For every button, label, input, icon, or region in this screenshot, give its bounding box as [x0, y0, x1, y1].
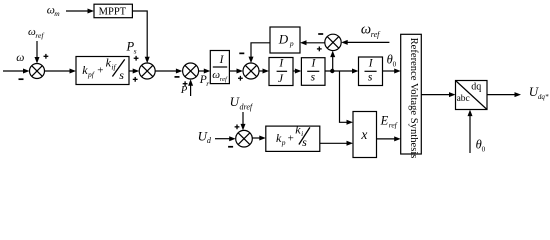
- wire D_p to S4: [249, 43, 271, 63]
- wire node up to summing junction S5: [330, 51, 335, 71]
- svg-text:J: J: [278, 73, 284, 85]
- sign minus at S4: [239, 52, 244, 54]
- wire omega_m to MPPT: [66, 9, 94, 14]
- svg-text:s: s: [302, 135, 307, 149]
- svg-text:D: D: [278, 32, 289, 47]
- sign minus at S5: [318, 33, 323, 35]
- label omega_ref right: [361, 21, 381, 39]
- wire second 1/s to Reference Voltage Synthesis: [383, 69, 401, 74]
- wire 1/J to 1/s: [293, 69, 301, 74]
- label theta_0 lower: [476, 137, 486, 153]
- wire 1/s to node and to second 1/s: [325, 69, 359, 74]
- svg-text:0: 0: [482, 145, 486, 153]
- sign plus at S3: [183, 81, 188, 86]
- sign minus at S3: [175, 76, 180, 78]
- wire S6 to PI block V: [252, 136, 265, 141]
- wire 1/omega_ref to summing junction S4: [229, 69, 243, 74]
- svg-text:r: r: [206, 79, 209, 88]
- block 1/s first: [301, 57, 325, 85]
- sign plus at S1: [44, 54, 49, 59]
- svg-text:ω: ω: [16, 52, 24, 64]
- wire MPPT to summing junction S2: [132, 11, 149, 63]
- wire S5 to D_p: [300, 40, 325, 45]
- svg-text:Reference Voltage Synthesis: Reference Voltage Synthesis: [408, 38, 419, 159]
- summing junction S2: [139, 63, 155, 79]
- wire theta_0 to dq abc transform: [468, 110, 473, 153]
- block MPPT: [94, 4, 132, 18]
- wire node down to multiplier x top input: [340, 71, 354, 125]
- block PI frequency kpf+kif/s: [76, 56, 129, 85]
- svg-text:p: p: [281, 138, 286, 147]
- label theta_0 upper: [387, 52, 397, 68]
- wire PI block F to summing junction S2: [129, 69, 139, 74]
- block 1/omega_ref: [210, 51, 229, 84]
- summing junction S6: [236, 130, 253, 147]
- svg-text:dq: dq: [471, 82, 481, 93]
- wire U_d to summing junction S6: [215, 136, 236, 141]
- label P_r: [199, 74, 210, 88]
- sign plus lower at S2: [133, 77, 138, 82]
- summing junction S5: [325, 34, 341, 50]
- svg-text:p: p: [289, 39, 294, 48]
- label omega_m: [47, 4, 61, 18]
- sign plus upper at S2: [134, 56, 139, 61]
- svg-text:abc: abc: [457, 94, 470, 104]
- block Reference Voltage Synthesis: [401, 34, 422, 158]
- block PI voltage kp+ki/s: [266, 123, 320, 152]
- sign minus at S6: [228, 146, 233, 148]
- block multiplier x: [353, 112, 377, 158]
- svg-text:+: +: [97, 64, 103, 76]
- summing junction S1: [30, 64, 45, 79]
- svg-text:m: m: [54, 9, 60, 18]
- svg-text:P: P: [180, 85, 188, 96]
- wire omega to summing junction S1: [3, 69, 30, 74]
- svg-text:+: +: [288, 132, 294, 144]
- wire S2 to summing junction S3: [155, 69, 182, 74]
- wire omega_ref to S5: [341, 40, 389, 45]
- wire Reference Voltage Synthesis to dq abc transform: [421, 92, 455, 97]
- svg-text:pf: pf: [87, 70, 95, 79]
- svg-text:*: *: [545, 93, 549, 101]
- svg-text:s: s: [134, 47, 137, 56]
- wire S1 to PI block F: [45, 69, 77, 74]
- svg-text:ref: ref: [35, 31, 44, 40]
- svg-text:dref: dref: [240, 102, 254, 111]
- label U_dref: [230, 94, 254, 111]
- wire node to second 1/s handled above; block 1/s second: [359, 57, 383, 86]
- label U_d: [198, 128, 212, 145]
- svg-text:x: x: [360, 127, 367, 142]
- wire multiplier x to Reference Voltage Synthesis: [377, 136, 401, 141]
- label omega_ref top-left: [28, 26, 44, 40]
- wire S3 to block 1/omega_ref: [199, 69, 211, 74]
- wire S4 to block 1/J: [259, 69, 269, 74]
- wire U_dref to summing junction S6: [241, 112, 246, 130]
- summing junction S4: [243, 63, 259, 79]
- svg-text:ref: ref: [220, 76, 228, 83]
- svg-text:E: E: [380, 114, 389, 128]
- svg-text:ω: ω: [361, 21, 371, 37]
- svg-text:MPPT: MPPT: [99, 6, 127, 17]
- node omega dot: [330, 69, 334, 73]
- block 1/J: [269, 57, 293, 85]
- block D_p: [270, 27, 300, 53]
- wire dq abc to U_dq* output: [487, 92, 521, 97]
- sign plus at S5: [317, 47, 322, 52]
- sign plus at S4: [238, 76, 243, 81]
- svg-text:s: s: [311, 72, 316, 84]
- label P_s: [126, 40, 137, 56]
- sign plus at S6: [235, 124, 240, 129]
- block dq abc transform: [456, 81, 488, 110]
- svg-text:s: s: [368, 72, 373, 84]
- wire P to summing junction S3: [188, 79, 193, 96]
- svg-text:0: 0: [393, 60, 397, 68]
- svg-text:ref: ref: [389, 121, 398, 130]
- wire PI block V to multiplier x: [320, 141, 353, 146]
- svg-text:s: s: [119, 68, 124, 82]
- summing junction S3: [183, 63, 199, 79]
- label U_dq*: [529, 84, 549, 101]
- label E_ref: [380, 114, 398, 130]
- sign minus at S1: [19, 78, 24, 80]
- wire omega_ref to summing junction S1: [35, 41, 40, 64]
